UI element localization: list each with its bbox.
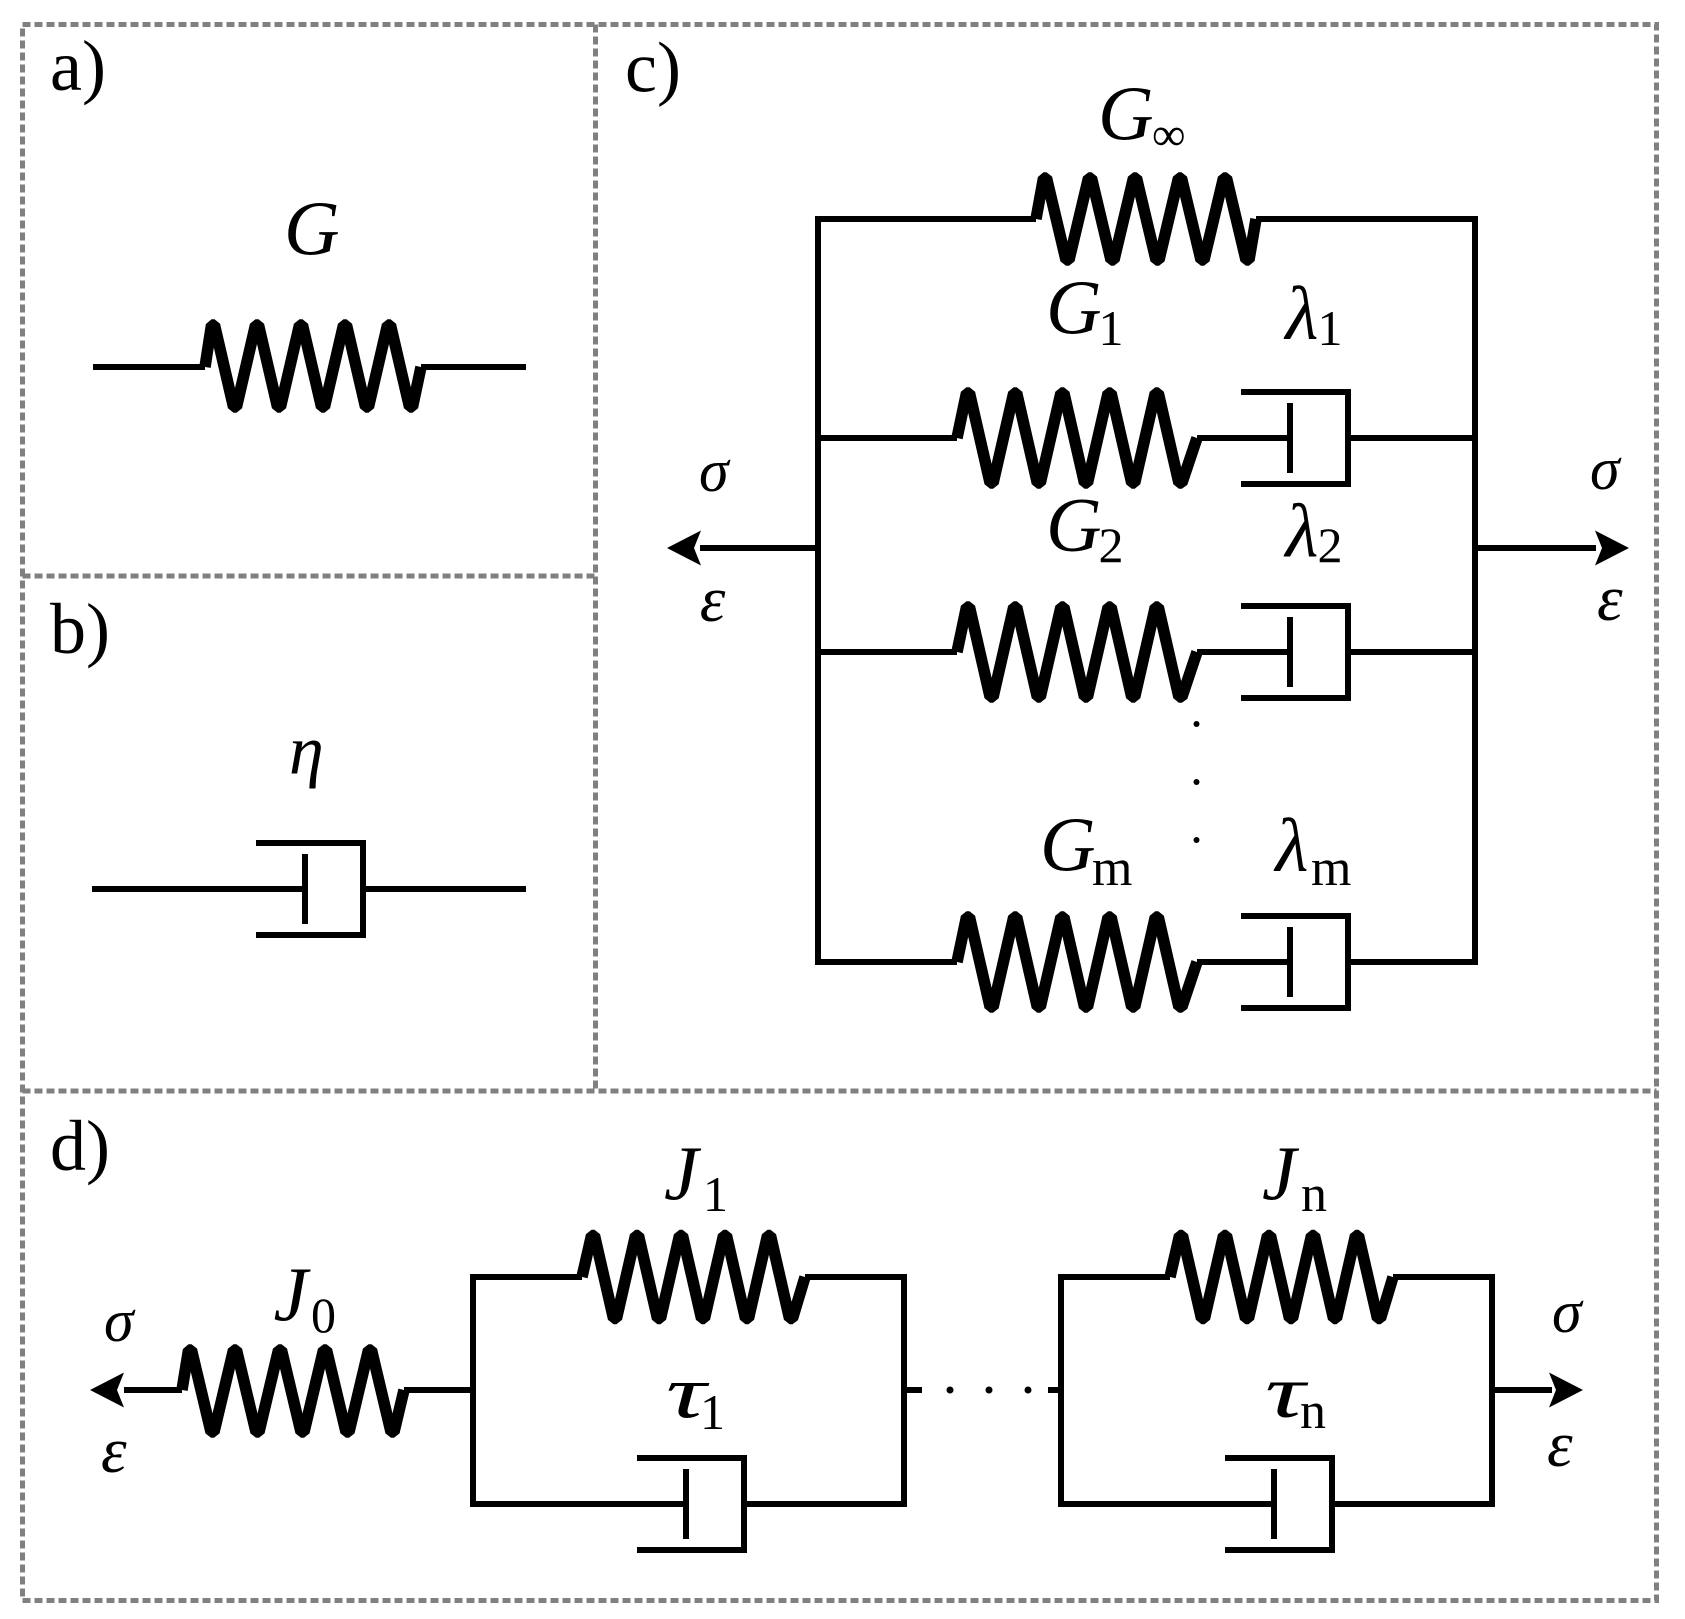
svg-text:ε: ε (700, 564, 726, 636)
svg-text:J: J (274, 1251, 312, 1337)
svg-text:0: 0 (311, 1287, 336, 1343)
svg-text:σ: σ (1552, 1279, 1584, 1345)
svg-text:J: J (1262, 1130, 1300, 1216)
svg-text:G: G (1046, 482, 1102, 568)
svg-text:ε: ε (1597, 563, 1623, 635)
svg-text:n: n (1301, 1166, 1327, 1223)
svg-text:d): d) (50, 1106, 110, 1186)
svg-text:G: G (1098, 71, 1154, 157)
svg-text:∞: ∞ (1152, 109, 1186, 161)
svg-text:m: m (1092, 840, 1132, 897)
svg-text:ε: ε (1547, 1409, 1573, 1481)
svg-text:λ: λ (1284, 490, 1319, 574)
svg-text:a): a) (50, 26, 106, 106)
svg-text:σ: σ (1590, 436, 1622, 502)
svg-text:J: J (664, 1130, 702, 1216)
svg-text:2: 2 (1099, 517, 1124, 573)
svg-text:c): c) (625, 28, 681, 108)
svg-text:G: G (284, 186, 340, 272)
svg-text:b): b) (50, 589, 110, 669)
svg-text:n: n (1300, 1383, 1326, 1440)
svg-text:2: 2 (1318, 517, 1343, 573)
svg-text:1: 1 (703, 1166, 728, 1222)
svg-text:λ: λ (1284, 272, 1319, 356)
svg-text:σ: σ (699, 438, 731, 504)
svg-text:G: G (1040, 802, 1096, 888)
svg-text:m: m (1311, 840, 1351, 897)
svg-text:1: 1 (1318, 300, 1343, 356)
svg-text:1: 1 (1099, 300, 1124, 356)
svg-text:ε: ε (101, 1415, 127, 1487)
svg-text:λ: λ (1274, 804, 1309, 888)
svg-text:η: η (289, 713, 324, 790)
svg-text:G: G (1046, 265, 1102, 351)
svg-text:1: 1 (700, 1384, 725, 1440)
svg-text:σ: σ (104, 1288, 136, 1354)
